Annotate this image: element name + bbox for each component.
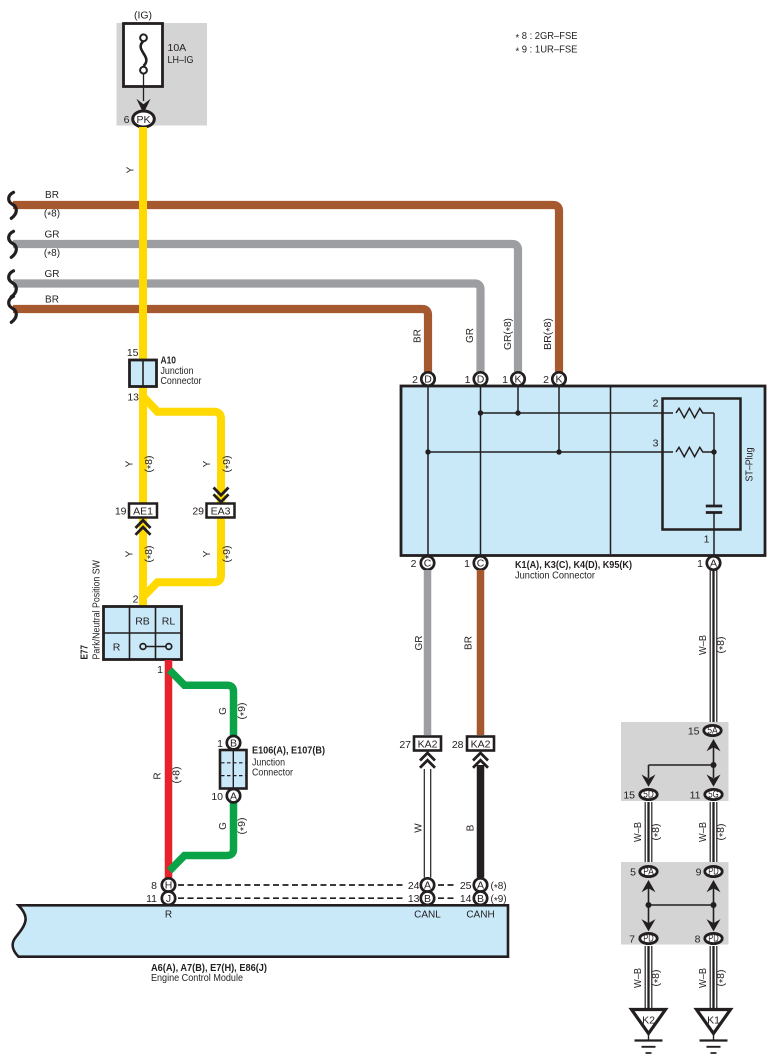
svg-text:RL: RL	[162, 616, 176, 628]
pin 15	[127, 347, 139, 359]
pin 11 of 5G	[690, 790, 701, 802]
fuse value label 10A LH-IG	[168, 42, 194, 66]
net label CANL	[414, 910, 441, 921]
pin 2 of 2(C)	[411, 558, 417, 570]
dashed wire J to 13(B)	[178, 897, 403, 899]
pin 13 ECM	[408, 893, 420, 905]
ground distribution block 5A/5D/5G shading	[621, 722, 729, 801]
svg-text:W–B: W–B	[698, 635, 709, 655]
wire GR (*8) horizontal to 1(K)	[13, 244, 518, 372]
wire W-B 5G to PD	[710, 802, 717, 864]
pin 2 of 2(K)	[543, 374, 549, 386]
svg-text:(*9): (*9)	[237, 703, 250, 720]
pin 1 of 1(C)	[464, 558, 470, 570]
label Y (*8) lower left	[125, 546, 158, 563]
dashed wire H to 24(A)	[178, 884, 403, 886]
svg-text:R: R	[165, 910, 172, 921]
terminal A of E106	[227, 789, 240, 802]
label Y top	[126, 166, 137, 173]
arrow down into 5D	[642, 765, 656, 787]
svg-text:AE1: AE1	[133, 505, 153, 517]
svg-text:EA3: EA3	[211, 505, 231, 517]
svg-text:Park/Neutral Position SW: Park/Neutral Position SW	[91, 560, 103, 660]
svg-text:B: B	[466, 824, 477, 831]
label (*8) row A	[491, 881, 507, 894]
terminal PD lower right	[705, 933, 722, 945]
svg-text:C: C	[424, 558, 432, 570]
svg-text:27: 27	[399, 739, 411, 751]
svg-text:15: 15	[623, 790, 635, 802]
junction dot PA	[646, 902, 652, 908]
junction dot PD	[711, 902, 717, 908]
label W-B (*8) upper right	[698, 635, 729, 655]
svg-text:1: 1	[502, 374, 508, 386]
wire GR horizontal to 1(D)	[13, 284, 481, 373]
internal wire upper horizontal to resistor 2	[481, 412, 674, 414]
wire 5A branch horizontal	[649, 764, 714, 766]
label BR wire4	[45, 295, 59, 306]
junction connector E106(A), E107(B) body	[220, 750, 247, 789]
svg-text:7: 7	[629, 934, 635, 946]
arrow up into PA	[642, 880, 656, 905]
svg-text:Y: Y	[125, 460, 136, 467]
terminal A CANL	[421, 878, 434, 891]
terminal B CANH	[474, 892, 487, 905]
pin 1 E77	[157, 664, 163, 676]
svg-text:LH–IG: LH–IG	[168, 54, 194, 66]
svg-text:K1: K1	[707, 1015, 720, 1027]
svg-text:5G: 5G	[708, 789, 719, 801]
internal wire 1(K) drop	[517, 386, 519, 413]
yellow wire overlay crossing	[139, 190, 147, 320]
label Y (*9) right branch	[202, 456, 235, 473]
terminal C lower mid	[474, 556, 487, 569]
pin 24 ECM	[408, 880, 420, 892]
svg-text:W–B: W–B	[698, 822, 709, 842]
svg-text:24: 24	[408, 880, 420, 892]
svg-text:(*8): (*8)	[716, 970, 729, 987]
terminal J	[162, 892, 175, 905]
label A10 Junction Connector	[161, 355, 202, 388]
svg-text:A: A	[230, 790, 237, 802]
pin 27	[399, 739, 411, 751]
wire BR from 1(C) to KA2	[477, 570, 485, 735]
pin 5 of PA	[630, 867, 636, 879]
wire Y main vertical	[139, 127, 147, 608]
wire R from E77 to ECM	[165, 660, 173, 878]
svg-text:Engine Control Module: Engine Control Module	[151, 972, 243, 984]
svg-text:Y: Y	[125, 550, 136, 557]
terminal PK	[133, 111, 155, 127]
svg-text:(*8): (*8)	[491, 881, 507, 894]
pin 3 resistor	[653, 438, 659, 450]
junction dot 1(D)	[478, 410, 483, 415]
pin 1 of 1(K)	[502, 374, 508, 386]
pin 6	[124, 114, 130, 126]
svg-text:5: 5	[630, 867, 636, 879]
pin 15 of 5D	[623, 790, 635, 802]
wire W-B PD to ground K1	[710, 946, 717, 1009]
svg-text:A: A	[477, 880, 484, 892]
pin 29	[192, 506, 204, 518]
terminal B of E106	[227, 736, 240, 749]
label GR wire3	[45, 269, 60, 280]
svg-text:Connector: Connector	[252, 767, 293, 779]
svg-text:(*8): (*8)	[716, 824, 729, 841]
svg-text:R: R	[113, 642, 121, 654]
svg-text:10A: 10A	[168, 42, 187, 54]
chevrons above EA3	[214, 488, 229, 503]
svg-text:D: D	[477, 374, 485, 386]
svg-text:2: 2	[653, 398, 659, 410]
svg-text:* 8 : 2GR–FSE: * 8 : 2GR–FSE	[516, 30, 578, 44]
terminal 5A	[704, 725, 721, 737]
svg-text:(*8): (*8)	[651, 970, 664, 987]
svg-text:BR: BR	[413, 329, 424, 343]
pin 1 of 1(D)	[465, 374, 471, 386]
svg-text:J: J	[166, 893, 171, 905]
wire Y lower branch from EA3 to E77	[145, 515, 222, 596]
svg-text:(*8): (*8)	[651, 824, 664, 841]
connector KA2 left	[414, 737, 441, 751]
svg-text:28: 28	[452, 739, 464, 751]
svg-text:1: 1	[217, 738, 223, 750]
svg-text:K2: K2	[642, 1015, 655, 1027]
svg-text:14: 14	[460, 893, 472, 905]
arrow up into 5A	[707, 739, 721, 765]
svg-text:CANH: CANH	[466, 910, 494, 921]
pin 9 of PD	[696, 867, 702, 879]
svg-text:KA2: KA2	[471, 738, 491, 750]
junction connector A10	[130, 360, 157, 387]
svg-text:9: 9	[696, 867, 702, 879]
svg-text:B: B	[477, 893, 484, 905]
connector AE1	[129, 504, 157, 518]
arrow down into 5G	[707, 765, 721, 787]
chevrons below KA2 left	[420, 753, 435, 768]
svg-text:1: 1	[465, 374, 471, 386]
wire W-B from 1(A) to 15(5A)	[710, 570, 717, 724]
ST-Plug box	[663, 399, 741, 530]
svg-text:1: 1	[464, 558, 470, 570]
svg-text:CANL: CANL	[414, 910, 441, 921]
terminal 5D	[640, 789, 657, 801]
svg-text:29: 29	[192, 506, 204, 518]
arrow down into 7(PD)	[642, 905, 656, 931]
terminal C lower left	[421, 556, 434, 569]
arrow down into 8(PD)	[707, 905, 721, 931]
svg-text:E77: E77	[79, 645, 91, 660]
ground K1	[697, 1010, 731, 1054]
svg-text:Connector: Connector	[161, 375, 202, 387]
pin 19	[115, 506, 127, 518]
wire W-B 5D to PA	[645, 802, 652, 864]
switch E77 Park/Neutral Position SW	[104, 607, 182, 660]
pin 7 of PD	[629, 934, 635, 946]
svg-text:2: 2	[412, 374, 418, 386]
continuation squiggle BR upper	[9, 192, 17, 218]
pin 10 of E106 A	[211, 791, 223, 803]
svg-text:(*8): (*8)	[172, 767, 185, 784]
net label R	[165, 910, 172, 921]
label BR (*8) wire1	[44, 190, 60, 222]
label W	[414, 823, 425, 833]
svg-text:(*8): (*8)	[144, 456, 157, 473]
wire junction to capacitor	[713, 452, 715, 505]
label E106(A), E107(B) Junction Connector	[252, 745, 325, 779]
junction dot 5A branch	[711, 762, 717, 768]
svg-text:H: H	[165, 880, 173, 892]
svg-text:BR: BR	[45, 190, 59, 201]
internal wire 2(K) drop	[558, 386, 560, 452]
svg-text:GR: GR	[45, 269, 60, 280]
svg-text:G: G	[218, 707, 229, 715]
svg-text:19: 19	[115, 506, 127, 518]
pin 8 of PD	[695, 934, 701, 946]
svg-text:6: 6	[124, 114, 130, 126]
svg-text:(*8): (*8)	[44, 248, 60, 261]
pin 25 ECM	[460, 880, 472, 892]
svg-text:G: G	[218, 822, 229, 830]
label E77 Park/Neutral Position SW	[79, 560, 103, 660]
continuation squiggle GR lower	[9, 271, 17, 297]
svg-text:PD: PD	[708, 866, 719, 878]
label A6(A), A7(B), E7(H), E86(J) Engine Control Module	[151, 962, 267, 984]
svg-text:(*9): (*9)	[222, 456, 235, 473]
svg-text:Y: Y	[126, 166, 137, 173]
pin 1 of 1(A)	[697, 558, 703, 570]
label W-B (*8) right mid	[698, 822, 729, 842]
svg-text:(*8): (*8)	[716, 637, 729, 654]
connector KA2 right	[467, 737, 494, 751]
svg-text:BR: BR	[464, 636, 475, 650]
continuation squiggle GR upper	[9, 231, 17, 257]
label BR mid	[464, 636, 475, 650]
terminal H	[162, 878, 175, 891]
label K1(A), K3(C), K4(D), K95(K) Junction Connector	[515, 559, 632, 582]
svg-text:BR: BR	[45, 295, 59, 306]
svg-text:GR: GR	[45, 230, 60, 241]
label G (*9) lower	[218, 818, 250, 835]
svg-text:RB: RB	[135, 616, 150, 628]
pin 13	[127, 392, 139, 404]
svg-text:1: 1	[697, 558, 703, 570]
wire W-B PD to ground K2	[645, 946, 652, 1009]
internal wire 2(D) drop	[427, 386, 429, 555]
svg-text:K: K	[514, 374, 521, 386]
terminal A CANH	[474, 878, 487, 891]
svg-text:A: A	[424, 880, 431, 892]
svg-text:(IG): (IG)	[134, 10, 152, 22]
wire capacitor to pin 1	[713, 514, 715, 557]
svg-text:BR(*8): BR(*8)	[543, 318, 556, 350]
svg-text:D: D	[424, 374, 432, 386]
terminal B CANL	[421, 892, 434, 905]
wire PA-PD link	[649, 904, 714, 906]
svg-text:B: B	[230, 737, 237, 749]
pin 28	[452, 739, 464, 751]
chevrons below AE1	[136, 520, 151, 535]
label GR vertical	[465, 328, 476, 343]
resistor R2	[676, 408, 714, 417]
svg-text:W–B: W–B	[633, 822, 644, 842]
pin 2 resistor	[653, 398, 659, 410]
pin 1 of E106 B	[217, 738, 223, 750]
svg-text:K: K	[555, 374, 562, 386]
fuse block shading	[117, 23, 208, 126]
svg-text:GR: GR	[465, 328, 476, 343]
svg-text:B: B	[424, 893, 431, 905]
pin 14 ECM	[460, 893, 472, 905]
net label CANH	[466, 910, 494, 921]
terminal PA	[640, 866, 657, 878]
label W-B (*8) left lower	[633, 968, 664, 988]
svg-text:5A: 5A	[707, 725, 718, 737]
chevrons below KA2 right	[473, 753, 488, 768]
pin 2 of 2(D)	[412, 374, 418, 386]
label W-B (*8) left mid	[633, 822, 664, 842]
svg-text:25: 25	[460, 880, 472, 892]
terminal K upper right	[552, 372, 565, 385]
svg-text:2: 2	[411, 558, 417, 570]
terminal PD upper right	[705, 866, 722, 878]
dashed link 13(B) to 14(B)	[438, 897, 454, 899]
svg-text:PD: PD	[643, 933, 654, 945]
internal wire 1(D) drop	[480, 386, 482, 555]
svg-text:Junction Connector: Junction Connector	[515, 570, 595, 582]
svg-text:PA: PA	[643, 866, 654, 878]
junction dot R3 out	[711, 449, 716, 454]
wire R2 to R3 junction	[713, 413, 715, 452]
label W-B (*8) right lower	[698, 968, 729, 988]
label (*9) row B	[491, 894, 507, 907]
label GR (*8) wire2	[44, 230, 60, 262]
arrow up into PD	[707, 880, 721, 905]
node (IG)	[134, 10, 152, 22]
svg-text:(*8): (*8)	[144, 546, 157, 563]
svg-text:11: 11	[690, 790, 701, 802]
label GR(*8) vertical	[503, 318, 516, 350]
wire G upper branch to E106	[170, 670, 234, 736]
svg-text:(*9): (*9)	[237, 818, 250, 835]
svg-text:13: 13	[408, 893, 420, 905]
svg-text:E106(A), E107(B): E106(A), E107(B)	[252, 745, 325, 757]
svg-text:ST–Plug: ST–Plug	[744, 447, 756, 481]
capacitor C1	[706, 506, 722, 513]
junction dot 1(K)	[515, 410, 520, 415]
svg-text:(*9): (*9)	[222, 546, 235, 563]
wire Y branch to EA3	[144, 398, 221, 506]
svg-text:5D: 5D	[643, 789, 654, 801]
svg-text:C: C	[477, 558, 485, 570]
junction connector K1(A), K3(C), K4(D), K95(K) body	[401, 386, 765, 556]
svg-text:1: 1	[704, 534, 710, 546]
terminal A lower right	[707, 556, 720, 569]
wire BR upper horizontal to 2(K)	[13, 205, 559, 372]
svg-text:R: R	[153, 772, 164, 779]
terminal K upper mid	[511, 372, 524, 385]
pin 11 ECM	[146, 893, 157, 905]
label G (*9) upper	[218, 703, 250, 720]
svg-text:PD: PD	[708, 933, 719, 945]
svg-text:11: 11	[146, 893, 157, 905]
svg-text:W–B: W–B	[633, 968, 644, 988]
pin 1 ST-Plug	[704, 534, 710, 546]
wire fuse to terminal PK	[136, 74, 150, 114]
svg-text:1: 1	[157, 664, 163, 676]
svg-text:GR: GR	[414, 636, 425, 651]
svg-text:2: 2	[543, 374, 549, 386]
fuse F1 10A LH-IG	[124, 24, 163, 87]
note: asterisk legend	[516, 30, 578, 57]
svg-text:* 9 : 1UR–FSE: * 9 : 1UR–FSE	[516, 44, 578, 58]
pin 8 ECM	[151, 880, 157, 892]
svg-text:Y: Y	[202, 460, 213, 467]
label ST-Plug	[744, 447, 756, 481]
wire B to terminal 25(A)	[477, 765, 485, 878]
wire GR from 2(C) to KA2	[424, 570, 432, 735]
svg-text:10: 10	[211, 791, 223, 803]
label BR(*8) vertical	[543, 318, 556, 350]
dashed link 24(A) to 25(A)	[438, 884, 454, 886]
svg-text:15: 15	[127, 347, 139, 359]
svg-text:PK: PK	[136, 114, 150, 126]
internal wire lower horizontal to resistor 3	[428, 451, 673, 453]
label B	[466, 824, 477, 831]
label BR vertical	[413, 329, 424, 343]
ECM body A6(A), A7(B), E7(H), E86(J)	[13, 905, 508, 956]
terminal 5G	[705, 789, 722, 801]
svg-text:3: 3	[653, 438, 659, 450]
junction dot 2(K)	[556, 449, 561, 454]
wire BR lower horizontal to 2(D)	[13, 309, 428, 372]
pin 2 E77	[133, 594, 139, 606]
svg-text:8: 8	[695, 934, 701, 946]
terminal PD lower left	[640, 933, 657, 945]
svg-text:8: 8	[151, 880, 157, 892]
label R (*8)	[153, 767, 185, 784]
svg-text:A: A	[710, 558, 717, 570]
resistor R3	[676, 447, 714, 456]
pin 15 of 5A	[688, 726, 700, 738]
svg-text:2: 2	[133, 594, 139, 606]
svg-text:Y: Y	[202, 550, 213, 557]
svg-text:(*8): (*8)	[44, 209, 60, 222]
svg-text:13: 13	[127, 392, 139, 404]
ground distribution block PA/PD shading	[621, 862, 729, 945]
wire G lower branch from E106	[170, 802, 234, 871]
svg-text:15: 15	[688, 726, 700, 738]
svg-text:W–B: W–B	[698, 968, 709, 988]
terminal D upper left	[421, 372, 434, 385]
junction dot 2(D)	[425, 449, 430, 454]
label Y (*8) left branch	[125, 456, 158, 473]
label GR mid	[414, 636, 425, 651]
svg-text:W: W	[414, 823, 425, 833]
terminal D upper mid	[474, 372, 487, 385]
wire W to terminal 24(A)	[424, 769, 430, 878]
svg-text:KA2: KA2	[418, 738, 438, 750]
label Y (*9) lower right	[202, 546, 235, 563]
ground K2	[632, 1010, 666, 1054]
connector EA3	[207, 504, 235, 518]
continuation squiggle BR lower	[9, 296, 17, 322]
